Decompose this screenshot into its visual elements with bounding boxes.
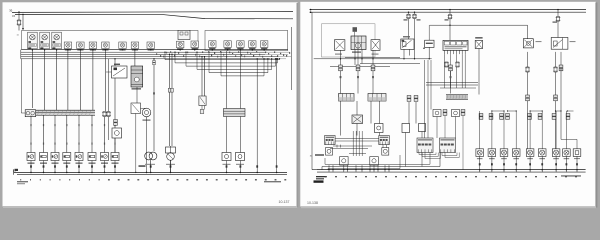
right page sheet <box>300 2 596 207</box>
mid box X4 <box>419 124 426 132</box>
terminal 31 stub wire <box>315 154 324 156</box>
relay I <box>551 38 568 50</box>
connector pair Q5 <box>407 96 411 102</box>
wires pairs down <box>340 71 452 94</box>
drop relay I <box>555 52 557 149</box>
drop switch H <box>527 52 529 149</box>
switch block SB1 <box>325 136 336 145</box>
supply wire with fuse S15a <box>449 10 451 15</box>
lamp feed wires <box>479 111 578 172</box>
wire band to E6 <box>91 115 93 153</box>
grid interconnect wires <box>335 138 379 140</box>
svg-text:10-138: 10-138 <box>307 201 318 205</box>
connector marks on twin pair 1 <box>168 88 170 92</box>
bottom box b9 <box>222 153 231 161</box>
lamp L2 <box>488 149 496 159</box>
wire from relay box down <box>114 138 116 153</box>
fuse S1 with rating window <box>28 32 38 49</box>
bottom unit E7 <box>101 153 109 164</box>
connector pair R5 <box>528 114 532 120</box>
X3 X4 drops to loops <box>405 133 407 167</box>
fuse panel box 1 outline <box>22 31 199 50</box>
drop switch E <box>428 47 430 58</box>
dense vertical runs into loops <box>337 131 387 156</box>
connector band right <box>224 109 246 117</box>
switch block SB4 <box>440 138 456 153</box>
harness band right page <box>446 95 468 100</box>
right caption text <box>561 175 581 176</box>
wire band to bottom box b10 <box>239 117 241 153</box>
stair wire r2 <box>360 63 420 65</box>
vertical wire from S5 <box>79 50 81 110</box>
connector pair R7 <box>552 114 556 120</box>
drop G2 <box>372 50 374 65</box>
fuse S5 <box>77 42 84 51</box>
wire below supply fuse into fuse panel <box>18 25 20 31</box>
caption text right <box>264 181 281 182</box>
connector pair F1b <box>526 95 530 101</box>
lamp L4 <box>512 149 520 159</box>
wire band to E7 <box>104 115 106 153</box>
multi-wire harness band <box>36 110 95 115</box>
harness bus line 1 <box>21 51 265 53</box>
fuse mid F1 <box>525 67 530 72</box>
long vertical from relay I <box>560 68 562 140</box>
drop relay D pins <box>403 49 405 58</box>
twin wire pair 2 <box>201 57 203 96</box>
loop drops to ground <box>328 165 389 172</box>
fuse S7 <box>102 42 109 51</box>
fuse mid F2 <box>553 67 558 72</box>
drop K1 pins <box>354 50 356 66</box>
connector pair R3 <box>500 114 504 120</box>
bottom unit E3 <box>51 153 59 164</box>
header wire to relay H <box>430 24 528 26</box>
fuse S3 with rating window <box>52 32 62 49</box>
bottom unit E5 <box>75 153 83 164</box>
fuse S13a <box>406 14 411 18</box>
connector pair R8 <box>566 114 570 120</box>
left page: bus 15 <box>15 14 293 18</box>
drop G1 <box>340 50 342 65</box>
connector pair YP1 <box>443 110 447 116</box>
left rail wire <box>311 12 313 169</box>
fuse S14 <box>224 41 231 50</box>
twin wire pair 1 <box>169 54 171 146</box>
wire S14 to connector band <box>226 51 228 109</box>
small circle box c3 <box>340 157 349 166</box>
wire S15 to connector band <box>239 51 241 109</box>
current track numbers <box>20 179 286 180</box>
fuse S15 <box>237 41 244 50</box>
motor M circle <box>142 108 151 117</box>
ground text block dark <box>316 176 326 177</box>
connector pair R2 <box>489 114 493 120</box>
lamp L8 <box>563 149 571 159</box>
fuse S11 <box>177 41 184 50</box>
connector pair P3 <box>371 65 375 71</box>
connector pair YP2 <box>461 110 465 116</box>
Y box drops to grid blocks <box>436 117 438 139</box>
pump motor M2 <box>166 147 176 153</box>
page edge wire right <box>291 27 293 90</box>
fuse S2 with rating window <box>40 32 50 49</box>
vertical wire from S7 <box>104 50 106 111</box>
fuse S16 <box>556 17 561 22</box>
wire from bus 15 down <box>22 14 24 28</box>
connector pair F2b <box>554 95 558 101</box>
drop J pins long <box>444 54 465 88</box>
small box under control unit <box>131 103 141 114</box>
wire band to lamp E1 <box>30 116 32 153</box>
switch H box <box>523 39 533 48</box>
relay J with diagonal <box>114 64 120 65</box>
fuse J1 <box>444 62 449 67</box>
wire band to E3 <box>54 115 56 153</box>
link box to motor <box>141 107 147 109</box>
connector pair P2 <box>356 65 360 71</box>
crossover wire 3 <box>186 65 276 67</box>
fuse S10 <box>147 42 154 51</box>
crossover wire 2 <box>175 62 278 64</box>
wire band to bottom box b9 <box>226 117 228 153</box>
relay box with circle <box>112 128 122 138</box>
vertical wire from S4 <box>67 50 69 110</box>
switch block SB2 <box>379 136 390 145</box>
fuse S16 <box>249 41 256 50</box>
vertical wire from S8 <box>114 59 116 128</box>
nested loops under G3 G4 <box>418 153 420 155</box>
wire code marks on drop wires <box>30 124 115 145</box>
vertical wire from S6 <box>92 50 94 110</box>
wire band to E4 <box>66 115 68 153</box>
fuse f-E8 <box>106 112 111 117</box>
connector pair P1 <box>339 65 343 71</box>
connector pair R6 <box>538 114 542 120</box>
M1 M2 drop adjust <box>150 160 152 173</box>
nested routing loops <box>333 145 372 147</box>
wires to mid boxes <box>341 101 417 136</box>
harness band ticks <box>38 110 92 115</box>
fuse S4 <box>64 42 71 51</box>
lamp L1 <box>476 149 484 159</box>
connector strip Q-right <box>368 94 386 102</box>
bottom unit E4 <box>63 153 71 164</box>
harness bus line 2 <box>21 53 265 55</box>
crossover wire 4 <box>197 68 272 70</box>
fuse S13 <box>209 41 216 50</box>
mid box Y2 <box>452 110 460 117</box>
ground left end stub <box>13 170 15 175</box>
lamp L3 <box>500 149 508 159</box>
fuse S9 <box>131 42 138 51</box>
pair above relay <box>114 120 118 126</box>
fuse f-E7 <box>102 112 107 117</box>
sensor G2 box <box>371 40 380 51</box>
bottom box b10 <box>236 153 245 161</box>
frame wire left <box>20 59 22 113</box>
collector wire y60 <box>314 58 432 60</box>
crossover wire 5 <box>209 72 268 74</box>
connector pair R4 <box>506 114 510 120</box>
bottom unit E6 <box>88 153 96 164</box>
ground bus 31 line 1 <box>14 171 287 173</box>
vertical wire from S2 <box>44 50 46 110</box>
supply wire with fuse S13b <box>414 12 416 14</box>
lamp L6 <box>538 149 546 159</box>
right ground bus line 1 <box>317 169 586 171</box>
small circle box c1 <box>326 148 333 156</box>
fuse S-supply <box>17 20 22 25</box>
wire to E8 <box>114 138 116 153</box>
crossover wire 6 <box>221 75 264 77</box>
vertical wire from S9 to relay <box>134 50 136 66</box>
connector pair Q6 <box>414 96 418 102</box>
ground bus 31 line 2 <box>17 174 287 176</box>
right current track numbers <box>325 176 577 177</box>
branch stub wires y111 <box>492 110 504 112</box>
ground drops from bottom row <box>30 161 241 174</box>
harness left feeder <box>20 50 22 59</box>
relay unit K1 shaded <box>353 27 358 32</box>
sensor G1 box <box>335 40 345 51</box>
connector strip Q-left <box>339 94 355 102</box>
rail to ground link <box>312 169 317 171</box>
fuse S6 <box>89 42 96 51</box>
relay D <box>401 39 414 49</box>
fuse S17 <box>261 41 268 50</box>
connector box above fuse S11 <box>178 30 190 39</box>
fuse panel box 2 outline <box>205 31 288 51</box>
wire colour code marks <box>156 51 290 58</box>
wire pair1 to M2 <box>170 146 172 153</box>
connector pair P4 <box>449 65 453 71</box>
wire pair2 continues <box>201 106 203 110</box>
connector stub under small box <box>200 110 204 114</box>
connector pair R1 <box>479 114 483 120</box>
bottom unit E2 <box>40 153 48 164</box>
twin run right of Y boxes <box>424 60 426 138</box>
vertical wire from S1 to connector strip <box>31 50 33 108</box>
connector strip end box <box>25 110 35 117</box>
mid box X3 <box>402 124 410 133</box>
harness bus line 3 <box>21 56 278 58</box>
drop G box right <box>478 49 480 95</box>
fuse J2 <box>455 62 460 67</box>
ground vertical right 2 <box>276 59 278 173</box>
right ground bus line 2 <box>317 171 586 173</box>
right page shadow edges <box>595 3 597 208</box>
crossover wire 1 <box>165 59 280 61</box>
ground vertical right 1 <box>256 59 258 173</box>
interconnect lines J area <box>426 82 478 84</box>
lamp feed horizontals <box>561 138 577 140</box>
left page: bus 30 <box>12 11 293 14</box>
switch block SB3 <box>417 138 433 153</box>
small circle box c4 <box>370 157 379 166</box>
right bus 30 <box>310 9 587 11</box>
small box on pair 2 <box>199 96 206 106</box>
mid box X2 <box>375 124 384 133</box>
connector pair P5 <box>559 65 563 71</box>
lamp L7 <box>552 149 560 159</box>
bottom unit E8 <box>111 153 119 164</box>
fuse S15a <box>448 15 453 19</box>
J pin stubs <box>444 50 465 54</box>
legend text left <box>17 181 28 182</box>
harness bus line 4 <box>21 58 270 60</box>
control unit hatched box <box>131 66 143 87</box>
vertical wire from S10 <box>153 59 155 151</box>
vertical wire from S3 <box>56 50 58 110</box>
wire band to E5 <box>78 115 80 153</box>
sensor G box right of J <box>475 37 482 38</box>
stair wire r3 <box>330 66 390 68</box>
enclosure frame around left group <box>322 24 376 57</box>
switch E box <box>425 40 434 47</box>
control unit J wide box <box>443 40 468 50</box>
fuse panel bus with junctions <box>22 49 288 51</box>
junction arrow at x23 <box>22 28 24 30</box>
left page sheet <box>3 2 298 206</box>
mid box Y1 <box>433 110 441 117</box>
svg-text:10-137: 10-137 <box>279 200 290 204</box>
right bus 15 <box>310 11 587 13</box>
supply wire with fuse S13a <box>408 12 410 14</box>
fuse S8 <box>119 42 126 51</box>
fuse S13b <box>412 14 417 18</box>
stair wire r1 <box>345 57 400 59</box>
supply wire with fuse S16 <box>557 10 559 17</box>
wire band to E2 <box>43 115 45 153</box>
wire motor down to ground <box>146 117 148 173</box>
small circle box c2 <box>382 148 389 156</box>
bottom unit E1 <box>27 153 35 164</box>
connector pair on S10 wire <box>153 61 156 63</box>
mid box X1 <box>352 115 363 124</box>
fuse S12 <box>191 41 198 50</box>
wire small box down <box>135 114 137 173</box>
motor M1 twin circles <box>145 152 153 160</box>
sender unit box last <box>573 149 581 157</box>
riser from switch E to header <box>428 25 430 40</box>
lamp L5 <box>526 149 534 159</box>
left page shadow edges <box>297 3 299 207</box>
wire from bus 30 down to fuse panel <box>18 12 20 20</box>
wire control unit to small box <box>136 87 138 103</box>
